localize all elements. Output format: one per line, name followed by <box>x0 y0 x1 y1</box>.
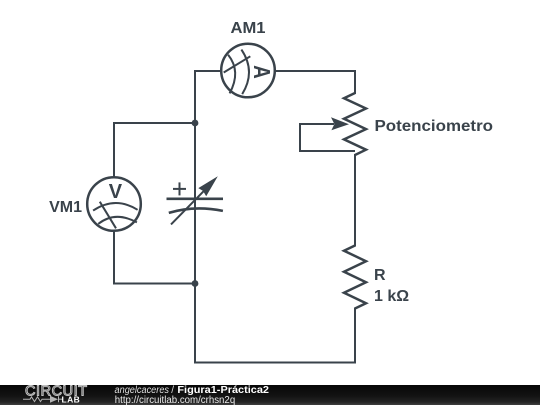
wire right vertical lower <box>354 309 356 363</box>
svg-text:Potenciometro: Potenciometro <box>375 118 494 135</box>
wire ammeter right horizontal <box>275 70 355 72</box>
ammeter AM1 <box>221 44 275 98</box>
potentiometer wiper arrow <box>300 117 355 151</box>
svg-text:AM1: AM1 <box>231 20 266 37</box>
logo wire with resistor and diode <box>23 396 63 402</box>
svg-text:VM1: VM1 <box>49 199 82 216</box>
wire voltmeter bottom branch <box>114 231 195 284</box>
svg-text:V: V <box>109 181 123 203</box>
voltmeter VM1 <box>87 177 141 231</box>
svg-text:1 kΩ: 1 kΩ <box>374 288 409 305</box>
wire left vertical <box>194 71 196 363</box>
wire bottom horizontal <box>195 362 355 364</box>
wire right vertical middle <box>354 155 356 246</box>
wire top-left horizontal <box>195 70 221 72</box>
wire right vertical upper <box>354 71 356 93</box>
node junction upper <box>192 120 199 127</box>
svg-text:R: R <box>374 267 386 284</box>
svg-text:http://circuitlab.com/crhsn2q: http://circuitlab.com/crhsn2q <box>115 395 235 405</box>
svg-text:A: A <box>249 65 274 79</box>
svg-text:LAB: LAB <box>62 394 81 404</box>
node junction lower <box>192 280 199 287</box>
voltage source V1 (variable battery) <box>167 176 224 224</box>
resistor R zigzag <box>344 246 366 309</box>
wire voltmeter top branch <box>114 123 195 177</box>
potentiometer zigzag <box>344 93 366 155</box>
